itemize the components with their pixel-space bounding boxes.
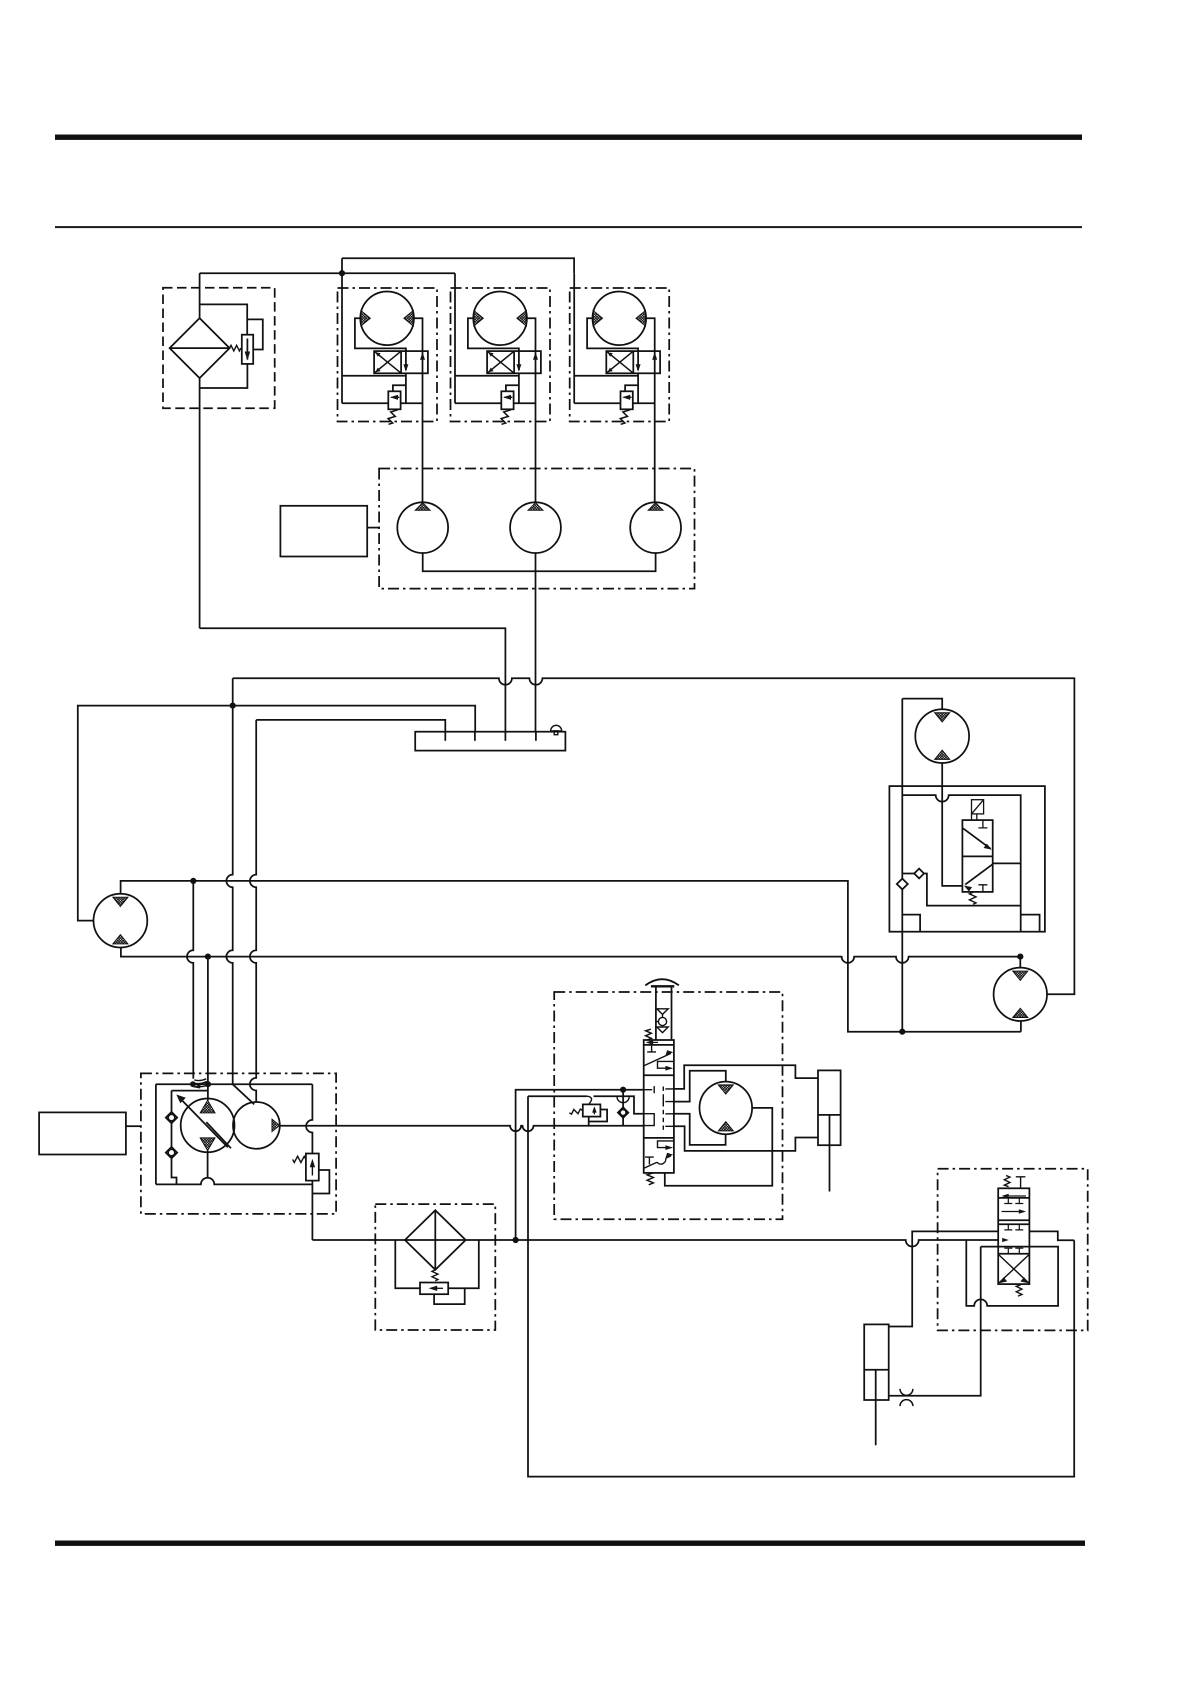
wire: steering supply riser — [516, 1090, 644, 1240]
deck motor right hatched triangle — [404, 311, 413, 326]
flushing valve body (two position) — [962, 820, 992, 892]
steering valve upper position paths — [644, 1045, 674, 1071]
motor left port wire into brake valve — [355, 318, 406, 370]
wire: steering valve port to cylinder rod end — [674, 1065, 818, 1089]
traction pump assembly enclosure (dash-dot) — [141, 1073, 336, 1214]
under-valve wire — [342, 375, 406, 377]
junction dot left header node — [230, 703, 236, 709]
wire: M5 left line down through flushing block — [901, 699, 903, 1032]
steering wheel symbol — [645, 979, 679, 986]
brake valve position divider — [400, 351, 402, 373]
lift valve assembly enclosure (dash-dot) — [938, 1169, 1088, 1331]
circuit bottom wire — [342, 402, 423, 404]
circuit relief arrow (left) — [390, 395, 399, 400]
flushing relief/drain line right — [1020, 863, 1022, 931]
flushing valve block enclosure — [889, 786, 1045, 932]
flushing valve solenoid — [972, 800, 984, 820]
wire: lift drain drop to coupler — [889, 1247, 981, 1396]
steering metering unit (checks and gerotor) — [656, 1009, 668, 1033]
steering column shafts — [656, 986, 672, 1040]
wire: steering return riser and LS line — [528, 1096, 644, 1114]
deck motor circuit 2 — [451, 273, 551, 502]
junction dot right motor top node — [1017, 954, 1023, 960]
engine box E1 — [280, 506, 367, 557]
steering valve lower position paths — [644, 1141, 674, 1168]
hydraulic tank / manifold — [415, 732, 565, 751]
pump housing inner top edge — [172, 1090, 208, 1092]
steering anti-cavitation check (seat and ball) — [617, 1090, 629, 1126]
P4 bottom port into case (terminated hop) — [207, 1151, 209, 1178]
charge relief valve — [306, 1154, 319, 1181]
wire: M5 top port — [902, 699, 942, 710]
wire: pump port line down — [207, 957, 209, 1101]
brake valve open position up-flow line — [422, 351, 424, 373]
lift valve body (stacked positions) — [998, 1188, 1029, 1284]
engine box E2 — [39, 1112, 126, 1154]
lift cylinder — [864, 1324, 889, 1445]
filter F1 bypass check valve (box with down arrow) — [242, 335, 253, 364]
pump housing top edge — [156, 1083, 313, 1085]
circuit output line to pump — [422, 373, 424, 502]
steering relief drain drop — [588, 1122, 590, 1126]
footer rule thick — [55, 1541, 1085, 1546]
wire: main return loop — [528, 1096, 1074, 1476]
suction filter F2 (diamond with vertical line) — [405, 1210, 466, 1270]
steering relief pilot curve — [587, 1096, 592, 1104]
wire: pump control line down — [187, 881, 193, 1079]
pump housing right edge (hops charge wire) — [306, 1084, 312, 1153]
wire: second tank line — [256, 720, 445, 732]
deck motor circuit definition (drawn at circuit-1 position) — [338, 273, 438, 502]
flushing pilot branch with check diamond — [902, 869, 1020, 906]
tank return wire from filter — [200, 628, 506, 731]
flushing block right port notch — [1021, 915, 1040, 932]
right top wheel motor M5 — [915, 709, 969, 763]
relief pilot jog — [393, 373, 406, 403]
wire: left motor bottom port B (with hops) — [121, 948, 1020, 963]
brake valve closed position X — [375, 352, 401, 373]
P4 variable arrow — [176, 1095, 231, 1149]
header rule thick — [55, 135, 1082, 140]
lift valve hold position (blocked) — [1002, 1224, 1023, 1254]
engine E2 coupling stub — [126, 1125, 141, 1127]
wire: left motor feed / tank line — [78, 706, 475, 921]
housing inner left edge with check valves — [166, 1091, 177, 1185]
lift valve top spring — [1004, 1176, 1010, 1187]
filter F1 bypass right loop — [247, 319, 263, 349]
steering motor M7 — [700, 1082, 753, 1135]
filter F1 bypass lower wire — [200, 364, 248, 388]
lift valve raise position — [1002, 1198, 1027, 1214]
header rule thin — [55, 226, 1082, 228]
wire: M6 bottom port — [1020, 1021, 1022, 1032]
charge pump suction diagonal — [233, 1084, 255, 1104]
variable displacement traction pump P4 — [181, 1099, 235, 1153]
wire: motor bottom loop to valve — [674, 1114, 726, 1145]
brake valve X arrowheads — [375, 352, 380, 372]
tank breather cap — [551, 725, 562, 734]
circuit supply vertical — [341, 273, 343, 403]
circuit relief spring (angled zigzag) — [388, 410, 398, 425]
filter F2 bypass left branch — [395, 1240, 420, 1288]
junction dot motor A branch — [190, 878, 196, 884]
wire: lift valve tank port to return loop — [1029, 1231, 1074, 1240]
deck motor M (circle) — [360, 292, 414, 346]
lift assembly tank gallery box — [966, 1240, 1058, 1306]
deck pump P2 — [510, 502, 561, 553]
pump housing left edge — [155, 1084, 157, 1184]
right bottom wheel motor M6 — [994, 968, 1047, 1021]
steering valve cap arrow — [646, 1040, 658, 1045]
steering valve return spring — [647, 1173, 653, 1185]
filter F2 bypass spring — [432, 1270, 438, 1281]
flushing valve spring — [969, 892, 976, 904]
quick coupler — [900, 1389, 913, 1406]
steering relief valve — [583, 1104, 601, 1116]
brake valve up-flow arrowhead — [420, 352, 425, 359]
pump suction bus — [423, 553, 656, 571]
wire: M5 bottom port to flushing valve — [942, 763, 962, 886]
pump control lever curl — [194, 1079, 207, 1087]
junction dot at flushing drain — [899, 1029, 905, 1035]
wire: M6 top port — [1019, 957, 1021, 968]
wire: case-drain header to right wheel motor (with hops) — [233, 678, 1075, 994]
wire: supply manifold top (to deck circuit 3) — [342, 258, 574, 273]
lift valve float arrow — [1002, 1194, 1027, 1199]
pump housing bottom edge (with terminated hop) — [156, 1178, 313, 1185]
steering relief spring — [569, 1109, 583, 1114]
engine E1 coupling stub — [367, 527, 379, 529]
deck circuit enclosure (dash-dot) — [338, 288, 438, 422]
junction dot steering check node — [620, 1087, 626, 1093]
flushing block left port notch — [902, 915, 920, 932]
wire: supply from filter to deck circuits 1-2 — [200, 272, 455, 274]
steering control assembly enclosure (dash-dot) — [554, 992, 782, 1219]
left wheel motor M4 — [94, 894, 148, 948]
wire: left leg down from case-drain header — [226, 678, 232, 1084]
junction dot pump B node — [205, 954, 211, 960]
filter F2 bypass relief valve — [420, 1283, 448, 1295]
gearbox pump group enclosure (dash-dot) — [379, 469, 694, 589]
motor right port wire — [414, 318, 423, 351]
wire: riser joining the two supply wires — [341, 258, 343, 273]
wire: charge leg down (hops housing top edge) — [250, 720, 256, 1102]
lift valve top plugged port — [1016, 1177, 1026, 1189]
pump bus drop to tank — [535, 553, 537, 732]
deck pump P3 — [630, 502, 681, 553]
lift valve lower position X — [999, 1255, 1029, 1283]
flushing shuttle check valve left (diamond on vertical) — [897, 879, 908, 890]
wire: motor right port to valve tank gallery — [665, 1108, 773, 1186]
wire: lift cylinder rod-end line — [889, 1231, 999, 1326]
charge relief outlet down — [311, 1181, 313, 1240]
lift valve bottom spring — [1016, 1285, 1022, 1296]
junction dot supply node — [339, 270, 345, 276]
brake valve body (two position) — [374, 351, 428, 373]
suction line from charge relief through filter (with hop) — [312, 1240, 998, 1247]
wire: steering valve port to motor top — [674, 1071, 726, 1102]
charge relief spring — [293, 1156, 306, 1162]
flushing block inner gallery (top edge with hop) — [902, 795, 1020, 863]
filter F1 bypass upper wire — [200, 304, 248, 334]
filter F2 bypass outlet loop — [434, 1288, 465, 1304]
flushing valve upper position diagonal — [963, 820, 992, 850]
deck pump P1 — [397, 502, 448, 553]
charge pump P5 — [233, 1102, 280, 1149]
junction dot housing/control node — [205, 1081, 211, 1087]
suction filter F2 enclosure — [375, 1204, 495, 1330]
filter F1 outlet wire down — [199, 378, 201, 628]
filter F1 bypass spring — [230, 345, 241, 351]
steering cylinder — [818, 1070, 841, 1191]
return filter F1 dashed enclosure — [163, 288, 275, 408]
filter F1 inlet wire — [199, 273, 201, 318]
return filter F1 element (diamond with mid-line) — [170, 318, 230, 378]
brake valve down-flow arrowhead — [403, 364, 408, 371]
steering valve centre position (blocked) — [644, 1086, 674, 1130]
junction dot steering supply tap — [513, 1237, 519, 1243]
circuit relief valve body — [388, 391, 400, 409]
deck motor left hatched triangle — [361, 311, 370, 326]
deck motor circuit 3 — [570, 273, 670, 502]
steering valve body (three position) — [644, 1040, 674, 1173]
filter F2 bypass right branch — [465, 1240, 479, 1288]
wire: steering valve port to cylinder base end — [674, 1126, 818, 1151]
charge relief bypass loop — [312, 1170, 329, 1194]
steering valve centering spring — [646, 1029, 652, 1040]
wire: charge pressure line to steering (with hops) — [280, 1126, 644, 1132]
wire: left motor top port A (with hops) — [121, 881, 1021, 1032]
flushing valve lower position diagonal — [964, 864, 993, 892]
steering relief outlet loop — [589, 1110, 607, 1122]
